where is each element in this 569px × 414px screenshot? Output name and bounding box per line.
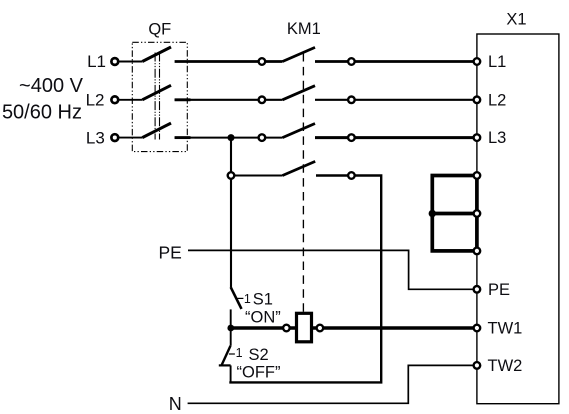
node L3 junction [228,134,235,141]
contactor KM1 pole 1 [262,47,315,61]
wire L3 KM1 to X1 [315,136,473,139]
terminal X1 bridge top [474,172,481,179]
svg-text:1: 1 [244,292,251,306]
wire L2 input stub [118,99,142,101]
svg-text:L3: L3 [488,129,506,147]
wire L2 QF to KM1 [175,99,262,101]
contactor KM1 pole 1 right terminal [348,58,355,65]
wire L3 junction down to S1 [230,138,232,288]
terminal X1 L2 [474,91,507,109]
svg-text:L1: L1 [488,53,506,71]
terminal X1 bridge middle [474,210,481,217]
wire L3 input stub [118,137,142,139]
label mains ~400 V 50/60 Hz [2,75,84,124]
contactor KM1 aux left terminal [228,172,235,179]
svg-text:“ON”: “ON” [245,308,281,326]
terminal X1 L1 [474,53,507,71]
svg-text:X1: X1 [506,10,526,28]
svg-text:1: 1 [236,346,243,360]
breaker QF enclosure (dash-dot box) [132,42,187,151]
svg-text:~400 V: ~400 V [19,75,84,97]
svg-text:L1: L1 [87,52,106,71]
svg-text:PE: PE [158,242,181,262]
label S2 "OFF" [237,346,281,382]
contactor KM1 pole 2 left terminal [259,97,266,104]
contactor KM1 pole 2 right terminal [348,97,355,104]
wire aux contact to S2 bottom (down right side) [229,176,381,383]
svg-text:L2: L2 [488,91,506,109]
terminal X1 PE [474,281,510,299]
wire TW1 line (coil circuit) [231,326,474,330]
svg-text:50/60 Hz: 50/60 Hz [2,102,82,124]
coil KM1 [283,313,323,342]
svg-text:N: N [169,394,182,414]
bridge links on X1 (double rectangle) [432,176,477,251]
breaker QF pole 1 blade [142,47,171,62]
wire PE to X1 [188,250,473,289]
contactor KM1 pole 1 left terminal [259,58,266,65]
svg-text:“OFF”: “OFF” [237,364,281,382]
label S1 "ON" [245,290,281,326]
svg-text:L3: L3 [86,128,105,147]
node bridge mid junction [429,210,436,217]
contactor KM1 pole 3 right terminal [348,134,355,141]
pushbutton S2 (OFF, normally closed) [219,328,243,382]
terminal X1 bridge bottom [474,248,481,255]
contactor KM1 pole 3 [262,124,315,138]
pushbutton S1 (ON, normally open) [231,287,251,328]
svg-text:PE: PE [488,281,510,299]
wire L3 QF to KM1 [175,137,262,139]
breaker QF pole 3 blade [142,123,171,138]
svg-text:S1: S1 [253,290,273,308]
contactor KM1 pole 3 left terminal [259,134,266,141]
terminal X1 TW1 [474,320,523,338]
svg-text:L2: L2 [86,90,105,109]
svg-text:KM1: KM1 [287,20,321,38]
wire L1 QF to KM1 [175,60,262,63]
contactor KM1 pole 2 [262,86,315,100]
contactor KM1 linkage (dashed) [302,53,304,313]
terminal block X1 box [477,34,559,404]
node TW1 junction at S1/S2 [227,325,234,332]
wire L2 KM1 to X1 [315,99,473,101]
breaker QF mechanical linkage [155,53,159,140]
svg-text:TW1: TW1 [488,320,523,338]
wire L1 input stub [118,61,142,63]
terminal X1 TW2 [474,357,523,375]
terminal L3 (mains) [86,128,118,147]
contactor KM1 aux right terminal [348,172,355,179]
breaker QF pole 2 blade [142,85,171,100]
terminal L2 (mains) [86,90,119,109]
svg-text:S2: S2 [249,346,269,364]
wire N to TW2 [188,365,474,403]
svg-text:QF: QF [148,21,171,39]
terminal L1 (mains) [87,52,118,71]
contactor KM1 aux contact [231,161,315,175]
svg-text:TW2: TW2 [488,357,523,375]
wire L1 KM1 to X1 [315,60,473,63]
terminal X1 L3 [474,129,507,147]
